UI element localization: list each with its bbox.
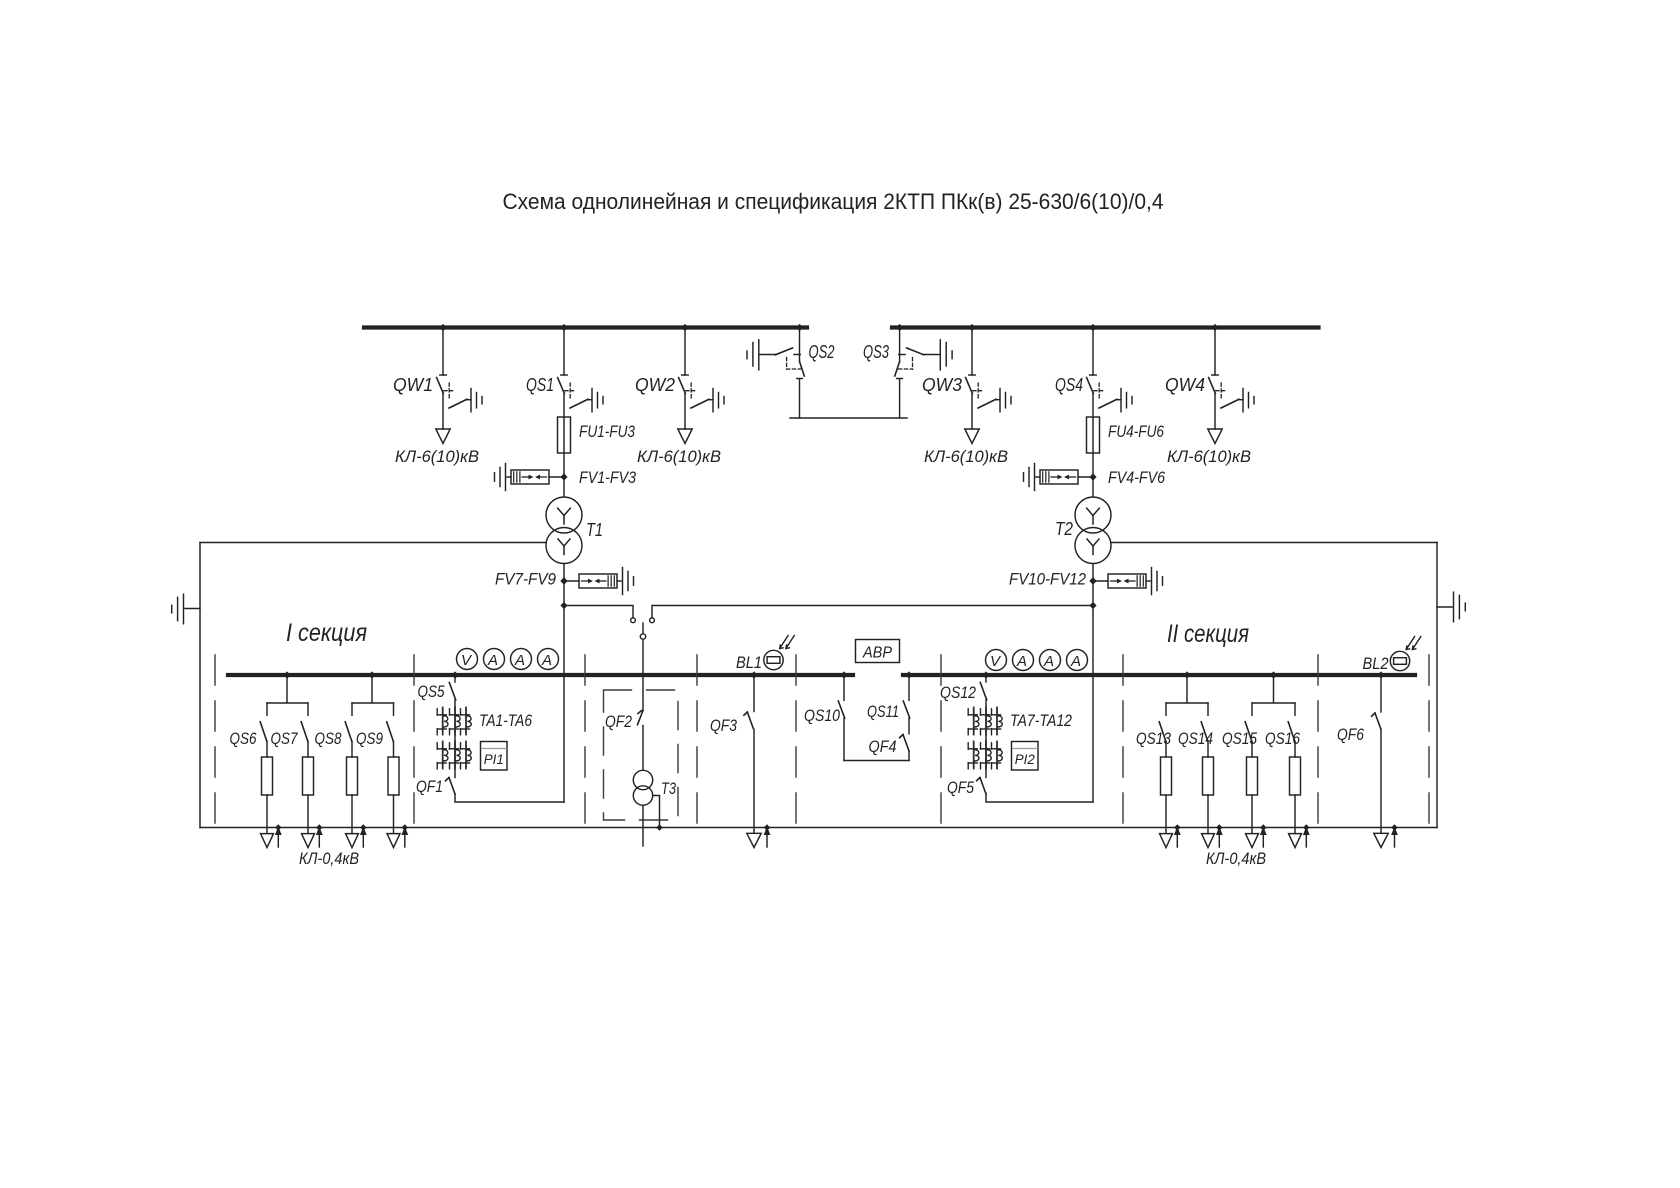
HV busbar tap node x=1093 bbox=[1089, 324, 1096, 331]
wire QS5 drop bbox=[454, 677, 456, 682]
fuse FU4-FU6 bbox=[1087, 417, 1100, 453]
svg-text:TA1-TA6: TA1-TA6 bbox=[479, 711, 532, 730]
svg-text:QF1: QF1 bbox=[416, 777, 443, 796]
svg-text:QS9: QS9 bbox=[356, 729, 383, 748]
circuit breaker QF5 bbox=[980, 778, 986, 795]
HV busbar section 2 bbox=[892, 325, 1319, 329]
feeder tap QS15-QS16 bbox=[1252, 677, 1295, 703]
switch QW4 with earthing switch bbox=[1209, 375, 1254, 412]
meter A section II #3 bbox=[1040, 650, 1061, 671]
feeder QS15 with fuse and cable bbox=[1245, 703, 1267, 848]
lamp BL1 bbox=[764, 650, 783, 669]
wire T1 junction to changeover bbox=[564, 606, 633, 618]
svg-text:АВР: АВР bbox=[862, 645, 892, 662]
wire QW1 to cable bbox=[442, 394, 444, 430]
wire QF2 to T3 bbox=[642, 726, 644, 771]
transformer T3 bbox=[633, 770, 652, 805]
svg-text:FU1-FU3: FU1-FU3 bbox=[579, 422, 635, 441]
feeder tap QS8-QS9 bbox=[352, 677, 394, 703]
meter A section II #2 bbox=[1013, 650, 1034, 671]
meter A section I #4 bbox=[538, 649, 559, 670]
svg-text:КЛ-0,4кВ: КЛ-0,4кВ bbox=[1206, 849, 1266, 868]
node T1 junction bbox=[560, 602, 567, 609]
panel divider x=1123 bbox=[1122, 655, 1124, 838]
svg-text:КЛ-6(10)кВ: КЛ-6(10)кВ bbox=[637, 447, 721, 466]
HV tie wire QS2-QS3 bbox=[790, 417, 907, 419]
svg-text:КЛ-6(10)кВ: КЛ-6(10)кВ bbox=[924, 447, 1008, 466]
HV busbar tap node x=564 bbox=[560, 324, 567, 331]
svg-text:QF4: QF4 bbox=[869, 737, 897, 756]
svg-text:QS5: QS5 bbox=[418, 682, 445, 701]
current transformers TA1-TA6 bbox=[442, 708, 444, 735]
wire QS5 to QF1 bbox=[454, 700, 456, 778]
HV busbar section 1 bbox=[364, 325, 807, 329]
svg-text:PI2: PI2 bbox=[1015, 751, 1035, 767]
cable arrow QW1 bbox=[436, 429, 450, 444]
feeder QF3 with cable bbox=[744, 677, 771, 848]
switch QS1 with earthing switch bbox=[558, 375, 603, 412]
svg-text:QS12: QS12 bbox=[940, 683, 976, 702]
switch QW2 with earthing switch bbox=[679, 375, 724, 412]
node T2 LV bbox=[1089, 577, 1096, 584]
node T2 junction bbox=[1089, 602, 1096, 609]
meter V section I #1 bbox=[457, 649, 478, 670]
meter box PI2 bbox=[1012, 742, 1039, 771]
feeder QF6 with cable bbox=[1372, 677, 1398, 848]
cable arrow QW2 bbox=[678, 429, 692, 444]
svg-text:QF5: QF5 bbox=[947, 778, 974, 797]
meter A section I #2 bbox=[484, 649, 505, 670]
svg-text:FV1-FV3: FV1-FV3 bbox=[579, 468, 636, 487]
HV busbar tap node x=799.5 bbox=[796, 324, 803, 331]
cable arrow QW3 bbox=[965, 429, 979, 444]
LV busbar node x=909 bbox=[905, 671, 912, 678]
switch QS2 with earthing switch bbox=[747, 330, 804, 419]
feeder QS13 with fuse and cable bbox=[1159, 703, 1181, 848]
current transformers TA7-TA12 bbox=[973, 708, 975, 735]
meter V section II #1 bbox=[986, 650, 1007, 671]
tie bottom wire bbox=[844, 760, 909, 762]
LV busbar node x=455 bbox=[451, 671, 458, 678]
circuit breaker QF1 bbox=[449, 778, 455, 795]
svg-text:КЛ-6(10)кВ: КЛ-6(10)кВ bbox=[1167, 447, 1251, 466]
panel divider x=1318 bbox=[1317, 655, 1319, 838]
svg-text:BL1: BL1 bbox=[736, 653, 762, 672]
feeder QS9 with fuse and cable bbox=[387, 703, 409, 848]
ground left bbox=[172, 594, 200, 624]
tie disconnector QS11 bbox=[903, 677, 909, 734]
circuit breaker QF2 bbox=[638, 711, 644, 725]
transformer T2 bbox=[1075, 497, 1111, 533]
svg-text:КЛ-6(10)кВ: КЛ-6(10)кВ bbox=[395, 447, 479, 466]
changeover contact right bbox=[650, 618, 655, 623]
wire T1 secondary down bbox=[563, 565, 565, 803]
panel divider x=941 bbox=[940, 655, 942, 838]
svg-text:FV4-FV6: FV4-FV6 bbox=[1108, 468, 1165, 487]
switch QS3 with earthing switch bbox=[895, 330, 952, 419]
svg-text:A: A bbox=[1016, 653, 1027, 670]
panel divider x=697 bbox=[696, 655, 698, 838]
wire drop QW2 bbox=[684, 330, 686, 376]
disconnector QS12 bbox=[980, 683, 986, 700]
svg-text:QS14: QS14 bbox=[1178, 729, 1213, 748]
LV busbar node x=986 bbox=[982, 671, 989, 678]
svg-text:QS2: QS2 bbox=[809, 342, 835, 362]
svg-text:QS6: QS6 bbox=[230, 729, 257, 748]
cable arrow QW4 bbox=[1208, 429, 1222, 444]
T3 panel dashed outline bbox=[604, 690, 679, 820]
HV busbar tap node x=972 bbox=[968, 324, 975, 331]
svg-text:QS4: QS4 bbox=[1055, 375, 1083, 395]
LV busbar node x=1273.5 bbox=[1270, 671, 1277, 678]
LV busbar node x=844 bbox=[840, 671, 847, 678]
svg-text:FV7-FV9: FV7-FV9 bbox=[495, 570, 556, 589]
transformer T1 bbox=[546, 497, 582, 533]
node T3 secondary bbox=[656, 824, 662, 830]
wire drop QW3 bbox=[971, 330, 973, 376]
LV busbar node x=1187 bbox=[1183, 671, 1190, 678]
HV busbar tap node x=899.6 bbox=[896, 324, 903, 331]
panel divider x=796 bbox=[795, 655, 797, 838]
wire drop QS1 bbox=[563, 330, 565, 376]
LV busbar node x=754 bbox=[750, 671, 757, 678]
changeover common contact bbox=[640, 634, 645, 639]
HV busbar tap node x=1215 bbox=[1211, 324, 1218, 331]
svg-text:A: A bbox=[541, 652, 552, 669]
surge arrester FV7-FV9 bbox=[560, 577, 567, 584]
panel divider x=215 bbox=[214, 655, 216, 838]
meter box PI1 bbox=[481, 742, 508, 771]
feeder tap QS6-QS7 bbox=[267, 677, 308, 703]
LV busbar node x=1381 bbox=[1377, 671, 1384, 678]
enclosure top-left wire bbox=[200, 542, 546, 544]
meter A section II #4 bbox=[1067, 650, 1088, 671]
switch QS4 with earthing switch bbox=[1087, 375, 1132, 412]
fuse FU1-FU3 bbox=[558, 417, 571, 453]
svg-text:Схема однолинейная и специфика: Схема однолинейная и спецификация 2КТП П… bbox=[503, 189, 1164, 214]
svg-text:QS13: QS13 bbox=[1136, 729, 1171, 748]
svg-text:QS10: QS10 bbox=[804, 706, 840, 725]
surge arrester FV4-FV6 bbox=[1089, 473, 1096, 480]
svg-text:QF2: QF2 bbox=[605, 712, 632, 731]
wire T3 secondary to enclosure bbox=[653, 796, 660, 828]
svg-text:II секция: II секция bbox=[1167, 620, 1249, 648]
panel divider x=414 bbox=[413, 655, 415, 838]
panel divider x=1429 bbox=[1428, 655, 1430, 838]
svg-text:A: A bbox=[1043, 653, 1054, 670]
wire QW3 to cable bbox=[971, 394, 973, 430]
tie circuit breaker QF4 bbox=[900, 735, 909, 761]
surge arrester FV1-FV3 bbox=[560, 473, 567, 480]
wire QS1 to fuse bbox=[563, 394, 565, 497]
wire QW2 to cable bbox=[684, 394, 686, 430]
surge arrester FV10-FV12 bbox=[1089, 577, 1096, 584]
svg-text:BL2: BL2 bbox=[1363, 654, 1389, 673]
svg-text:FU4-FU6: FU4-FU6 bbox=[1108, 422, 1164, 441]
svg-text:QS8: QS8 bbox=[315, 729, 342, 748]
svg-text:КЛ-0,4кВ: КЛ-0,4кВ bbox=[299, 849, 359, 868]
wire T2 junction to changeover bbox=[652, 606, 1093, 618]
wire QS4 to fuse bbox=[1092, 394, 1094, 497]
svg-text:QW3: QW3 bbox=[922, 375, 962, 395]
feeder QS8 with fuse and cable bbox=[345, 703, 367, 848]
tie disconnector QS10 bbox=[838, 677, 844, 761]
svg-text:QS7: QS7 bbox=[271, 729, 298, 748]
wire QF1 bottom bbox=[455, 794, 564, 802]
svg-text:FV10-FV12: FV10-FV12 bbox=[1009, 570, 1086, 589]
panel divider x=585 bbox=[584, 655, 586, 838]
meter A section I #3 bbox=[511, 649, 532, 670]
node T1 LV bbox=[560, 577, 567, 584]
svg-text:A: A bbox=[487, 652, 498, 669]
switch QW3 with earthing switch bbox=[966, 375, 1011, 412]
lightning marks BL2 bbox=[1406, 637, 1414, 650]
enclosure left edge bbox=[199, 543, 201, 828]
lamp BL2 bbox=[1390, 651, 1409, 670]
wire QS12 to QF5 bbox=[985, 700, 987, 778]
svg-text:T2: T2 bbox=[1055, 519, 1073, 539]
wire T3 down bbox=[642, 805, 644, 846]
ATS box ABP bbox=[856, 640, 900, 663]
svg-text:A: A bbox=[1070, 653, 1081, 670]
svg-text:QS15: QS15 bbox=[1222, 729, 1257, 748]
feeder QS6 with fuse and cable bbox=[260, 703, 282, 848]
svg-text:QF3: QF3 bbox=[710, 716, 737, 735]
svg-text:QS3: QS3 bbox=[863, 342, 889, 362]
svg-text:QW2: QW2 bbox=[635, 375, 675, 395]
svg-text:TA7-TA12: TA7-TA12 bbox=[1010, 711, 1072, 730]
enclosure right edge bbox=[1436, 543, 1438, 828]
svg-text:T1: T1 bbox=[586, 520, 603, 540]
svg-text:T3: T3 bbox=[661, 779, 676, 798]
enclosure bottom edge bbox=[200, 827, 1437, 829]
wire QF5 bottom bbox=[986, 794, 1093, 802]
wire drop QW4 bbox=[1214, 330, 1216, 376]
feeder QS14 with fuse and cable bbox=[1201, 703, 1223, 848]
lightning marks BL1 bbox=[780, 636, 788, 649]
svg-text:PI1: PI1 bbox=[484, 751, 504, 767]
wire changeover to T3 panel bbox=[642, 639, 644, 710]
svg-text:QW1: QW1 bbox=[393, 375, 433, 395]
changeover common wire bbox=[642, 623, 644, 634]
wire QS12 drop bbox=[985, 677, 987, 682]
ground right bbox=[1437, 592, 1465, 622]
svg-text:QS16: QS16 bbox=[1265, 729, 1300, 748]
disconnector QS5 bbox=[449, 683, 455, 700]
LV busbar node x=372 bbox=[368, 671, 375, 678]
feeder QS16 with fuse and cable bbox=[1288, 703, 1310, 848]
feeder tap QS13-QS14 bbox=[1166, 677, 1208, 703]
svg-text:QW4: QW4 bbox=[1165, 375, 1205, 395]
enclosure top-right wire bbox=[1112, 542, 1438, 544]
wire drop QW1 bbox=[442, 330, 444, 376]
svg-text:QS11: QS11 bbox=[867, 702, 899, 721]
wire drop QS4 bbox=[1092, 330, 1094, 376]
wire QW4 to cable bbox=[1214, 394, 1216, 430]
svg-text:I секция: I секция bbox=[286, 619, 367, 647]
switch QW1 with earthing switch bbox=[437, 375, 482, 412]
wire T2 secondary down bbox=[1092, 565, 1094, 803]
LV busbar section II bbox=[903, 673, 1415, 677]
LV busbar section I bbox=[228, 673, 853, 677]
svg-text:QF6: QF6 bbox=[1337, 725, 1364, 744]
LV busbar node x=287 bbox=[283, 671, 290, 678]
HV busbar tap node x=443 bbox=[439, 324, 446, 331]
svg-text:QS1: QS1 bbox=[526, 375, 554, 395]
svg-text:A: A bbox=[514, 652, 525, 669]
feeder QS7 with fuse and cable bbox=[301, 703, 323, 848]
changeover contact left bbox=[631, 618, 636, 623]
HV busbar tap node x=685 bbox=[681, 324, 688, 331]
